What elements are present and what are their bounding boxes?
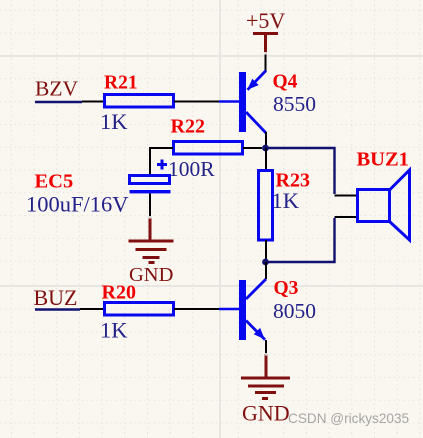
ground GND (Q3) [241,354,290,399]
wire Q4 collector to node A [265,132,267,148]
Q4 emitter diagonal [248,71,267,90]
svg-text:R20: R20 [102,282,136,304]
wire R22 right to node A [243,147,262,149]
wire BUZ colored segment [35,308,80,310]
resistor R21 [105,95,174,108]
wire R21 to Q4 base [174,101,219,103]
svg-text:GND: GND [242,401,290,426]
transistor Q4 [239,71,316,134]
wire +5V to Q4 emitter [265,52,267,71]
Q4 base pin [219,100,239,102]
svg-text:R22: R22 [171,116,205,138]
svg-text:1K: 1K [100,109,128,134]
svg-text:8050: 8050 [273,299,316,323]
Q3 collector diagonal [246,279,266,299]
wire EC5 to GND [149,194,151,218]
Q3 base pin [219,308,239,310]
wire BZV colored segment [35,101,82,103]
svg-text:Q4: Q4 [273,72,298,93]
svg-text:1K: 1K [100,318,128,343]
wire node A to buzzer bus [266,148,335,194]
Q4 base bar [239,72,246,132]
svg-text:100R: 100R [168,157,215,181]
node A junction dot [262,145,269,152]
Q3 base bar [239,280,246,340]
wire node B to Q3 collector [265,262,267,279]
node B junction dot [262,259,269,266]
svg-text:R21: R21 [104,73,138,94]
Q4 collector diagonal [246,112,266,133]
Q4 emitter arrow (PNP into base) [247,79,258,90]
capacitor EC5 bottom plate [130,190,171,193]
transistor Q3 [239,278,316,340]
capacitor EC5 plus sign [157,160,167,170]
wire buzzer pin 2 stub [335,216,358,218]
svg-text:8550: 8550 [273,92,316,116]
wire R22 left to EC5 [150,148,173,175]
svg-text:EC5: EC5 [35,171,74,193]
wire BUZ to R20 [80,308,104,310]
svg-text:Q3: Q3 [274,278,299,299]
svg-text:BUZ1: BUZ1 [357,149,409,171]
ground GND (EC5) [129,218,174,263]
wire node A to R23 top [265,148,267,171]
wire R23 bottom to node B [265,240,267,262]
capacitor EC5 top plate [130,176,170,184]
wire R20 to Q3 base [174,308,219,310]
svg-text:CSDN @rickys2035: CSDN @rickys2035 [288,411,409,426]
resistor R20 [105,303,174,316]
pin dot Q3-GND [265,353,268,356]
Q3 emitter arrow (NPN away) [254,328,265,339]
svg-text:BUZ: BUZ [34,285,78,310]
wire BZV to R21 [82,101,104,103]
svg-text:100uF/16V: 100uF/16V [26,191,129,216]
wire buzzer pin 1 stub [335,195,358,197]
wire node B to buzzer bus [266,218,335,262]
Q3 emitter diagonal [246,321,265,340]
wire Q3 emitter to GND [265,340,267,354]
pin dot +5V [265,52,268,55]
power bar +5V symbol [253,34,278,53]
svg-text:BZV: BZV [35,77,78,101]
svg-text:+5V: +5V [246,8,285,33]
resistor R23 [259,171,273,241]
pin dot EC5-GND [149,216,152,219]
buzzer BUZ1 [358,170,410,240]
resistor R22 [174,142,243,155]
svg-text:1K: 1K [272,188,300,213]
